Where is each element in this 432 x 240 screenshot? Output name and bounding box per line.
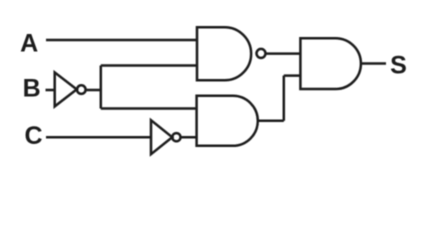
wire U1 output to AND3 upper input [265,52,300,55]
wire riser to AND3 lower input [284,74,301,77]
wire NOT2 output to AND2 [181,136,198,139]
wire AND2 output [258,120,284,123]
wire node to AND2 upper input [101,107,197,110]
wire AND2 output riser [283,76,286,121]
nand gate U1 body [197,27,251,80]
inverter NOT1 (input B) [55,72,77,106]
wire B stub [46,89,56,92]
wire node riser [100,66,103,109]
inverter NOT2 (input C) [151,120,172,154]
inverter NOT1 bubble [77,85,86,94]
wire AND3 output to S [361,62,386,65]
svg-text:A: A [20,29,38,57]
wire A input [46,39,197,42]
and gate AND2 body [197,96,258,146]
svg-text:B: B [23,75,41,103]
and gate AND3 body [300,38,361,89]
wire node to NAND lower input [101,64,197,67]
svg-text:C: C [24,122,42,150]
svg-text:S: S [390,51,407,79]
wire C input [46,136,151,139]
nand gate U1 bubble [257,49,266,58]
wire NOT1 output to node [86,89,101,92]
inverter NOT2 bubble [172,133,180,141]
